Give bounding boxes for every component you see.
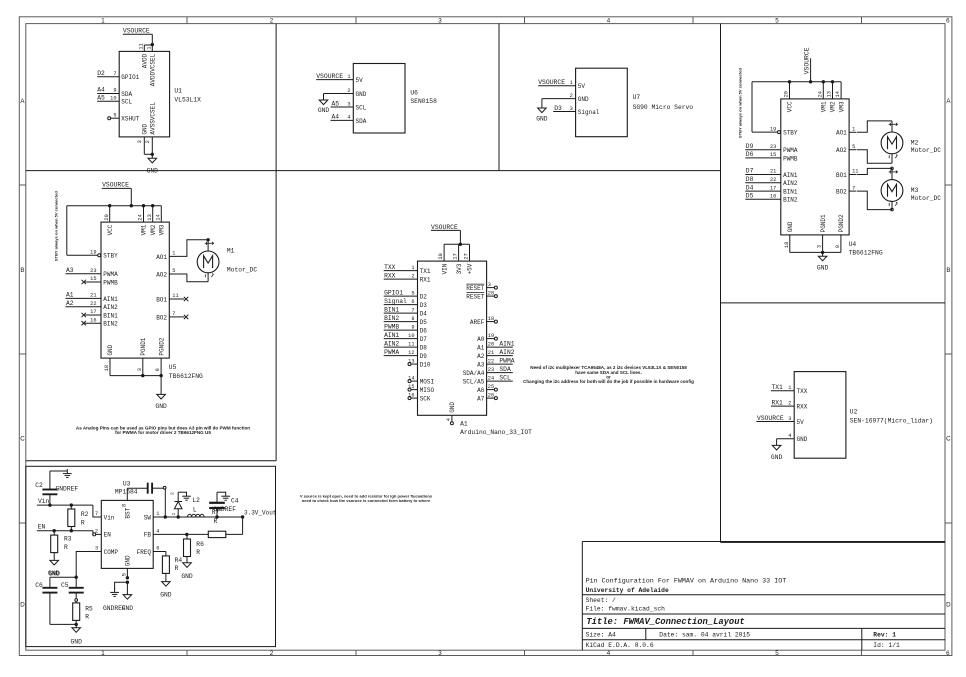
svg-text:D5: D5	[746, 193, 754, 200]
A1 pin 25 A6 unconnected	[477, 384, 497, 394]
svg-text:PWMB: PWMB	[783, 155, 798, 162]
A1 top pins VIN 3V3 +5V	[438, 244, 474, 274]
svg-text:Changing the i2c address for b: Changing the i2c address for both will d…	[523, 379, 694, 384]
svg-text:STBY always on when 5V connect: STBY always on when 5V connected	[738, 67, 743, 138]
svg-text:9: 9	[113, 87, 116, 93]
svg-text:1: 1	[101, 17, 105, 24]
svg-text:3: 3	[137, 368, 143, 371]
svg-text:4: 4	[607, 17, 611, 24]
capacitor C5	[61, 577, 84, 598]
svg-text:M2: M2	[911, 139, 919, 146]
svg-text:2: 2	[145, 140, 151, 143]
U7 pin 1 5V, net VSOURCE	[538, 79, 585, 90]
svg-text:GND: GND	[71, 639, 83, 646]
U3 pin 1 SW	[144, 511, 166, 521]
svg-text:26: 26	[488, 392, 494, 398]
U1 pin 7 GPIO1, net D2	[97, 70, 140, 81]
svg-text:20: 20	[104, 214, 110, 220]
svg-text:11: 11	[172, 293, 178, 299]
wire Vin to U3 pin 7	[92, 505, 94, 517]
resistor R3	[51, 531, 72, 561]
wire U4 ground bus	[790, 251, 841, 253]
svg-text:GND: GND	[48, 570, 60, 577]
svg-text:VSOURCE: VSOURCE	[102, 182, 129, 189]
svg-text:Motor_DC: Motor_DC	[911, 147, 941, 154]
svg-text:TXX: TXX	[384, 264, 396, 271]
svg-text:AVSSVCSEL: AVSSVCSEL	[150, 102, 157, 135]
wire U3 GND down	[126, 582, 128, 594]
svg-text:AIN2: AIN2	[384, 340, 399, 347]
svg-text:RX1: RX1	[420, 277, 431, 284]
U3 pin 7 Vin	[93, 511, 115, 521]
svg-text:R3: R3	[64, 536, 72, 543]
capacitor C4	[209, 492, 239, 517]
svg-text:30: 30	[438, 253, 444, 259]
pin end circle M3 bottom	[891, 208, 894, 211]
svg-text:4: 4	[788, 433, 791, 439]
A1 pin 14 MOSI unconnected	[408, 375, 434, 385]
wire C2 to GNDREF	[50, 470, 67, 472]
svg-text:AVDDVCSEL: AVDDVCSEL	[150, 53, 157, 86]
svg-text:C5: C5	[61, 582, 69, 589]
ground GND (U2)	[771, 445, 783, 460]
svg-text:Pin Configuration For FWMAV on: Pin Configuration For FWMAV on Arduino N…	[586, 577, 787, 585]
svg-text:RX1: RX1	[772, 399, 784, 406]
U5 top pins VCC VM1 VM2 VM3	[104, 206, 166, 236]
svg-text:C6: C6	[35, 582, 43, 589]
svg-text:4: 4	[446, 418, 452, 421]
svg-text:9: 9	[155, 368, 161, 371]
wire A1 top power bus	[444, 243, 469, 245]
junctions on VSOURCE bus (U4)	[788, 80, 834, 83]
A1 pin 24 SCL/A5, net SCL	[463, 374, 513, 385]
IC U2 SEN-16977 body	[794, 372, 846, 459]
svg-text:A2: A2	[66, 300, 74, 307]
svg-text:3: 3	[347, 101, 350, 107]
IC U5 TB6612FNG body	[101, 222, 169, 358]
resistor R6	[184, 534, 205, 562]
svg-text:6: 6	[156, 546, 159, 552]
svg-text:22: 22	[770, 177, 776, 183]
svg-text:VSOURCE: VSOURCE	[123, 28, 150, 35]
junction M1 top	[206, 238, 209, 241]
svg-text:VSOURCE: VSOURCE	[431, 224, 458, 231]
svg-text:Sheet: /: Sheet: /	[586, 597, 616, 604]
svg-text:GND: GND	[356, 91, 367, 98]
svg-text:3: 3	[137, 140, 143, 143]
svg-text:U7: U7	[633, 94, 641, 101]
svg-text:AVDD: AVDD	[142, 53, 149, 68]
svg-text:BST: BST	[125, 507, 132, 518]
svg-text:PWMA: PWMA	[103, 271, 118, 278]
U3 pin 5 GND	[122, 555, 132, 578]
svg-text:7: 7	[172, 311, 175, 317]
svg-text:GND: GND	[160, 591, 172, 598]
svg-text:1: 1	[570, 80, 573, 86]
svg-text:AIN1: AIN1	[499, 340, 514, 347]
junction Vout	[241, 515, 244, 518]
U3 pin 8 BST	[121, 488, 131, 518]
svg-text:D3: D3	[420, 302, 428, 309]
U3 pin 6 FREQ	[137, 546, 166, 556]
svg-text:GND: GND	[787, 221, 794, 232]
U3 pin 2 EN inverted	[93, 529, 112, 539]
U3 pin 4 FB	[144, 529, 187, 539]
A1 reference labels	[460, 420, 532, 436]
U6 pin 4 SDA, net A4	[331, 114, 367, 125]
svg-text:U1: U1	[174, 88, 182, 95]
svg-text:C: C	[946, 436, 951, 443]
wire Vout down to FB	[242, 517, 244, 534]
U2 reference labels	[850, 409, 933, 425]
svg-text:BIN1: BIN1	[783, 189, 798, 196]
svg-text:XSHUT: XSHUT	[121, 116, 139, 123]
svg-text:5V: 5V	[578, 83, 586, 90]
svg-text:D5: D5	[420, 319, 428, 326]
ground GND (R6)	[181, 563, 193, 580]
svg-text:22: 22	[90, 301, 96, 307]
U4 pin 1 AO1	[836, 127, 856, 137]
U5 pin 21 AIN1, net A1	[66, 292, 119, 303]
svg-text:17: 17	[770, 185, 776, 191]
svg-text:GPIO1: GPIO1	[384, 289, 403, 296]
svg-text:3V3: 3V3	[456, 263, 463, 274]
svg-text:STBY: STBY	[783, 130, 798, 137]
svg-text:U6: U6	[410, 89, 418, 96]
wire to M2 bottom	[857, 150, 892, 164]
svg-text:15: 15	[408, 384, 414, 390]
svg-text:23: 23	[90, 268, 96, 274]
IC U3 MP1584 body	[101, 500, 153, 568]
svg-text:Signal: Signal	[578, 109, 600, 116]
svg-text:SCL: SCL	[356, 104, 367, 111]
svg-text:15: 15	[770, 152, 776, 158]
svg-text:R: R	[64, 544, 68, 551]
svg-text:R2: R2	[81, 511, 89, 518]
svg-text:M3: M3	[911, 187, 919, 194]
svg-text:Vin: Vin	[104, 514, 115, 521]
U3 pin 3 COMP	[93, 546, 118, 556]
U4 pin 15 PWMB, net D6	[745, 151, 798, 162]
A1 pin 23 SDA/A4, net SDA	[463, 366, 513, 377]
svg-text:SDA: SDA	[499, 366, 511, 373]
svg-text:GND: GND	[449, 402, 456, 413]
U1 pin 9 SDA, net A4	[97, 86, 132, 98]
ground GND (R5)	[71, 624, 83, 645]
svg-text:A3: A3	[477, 362, 485, 369]
junction BST-SW	[164, 515, 167, 518]
svg-text:BIN2: BIN2	[103, 321, 118, 328]
U6 pin 1 5V, net VSOURCE	[316, 73, 363, 84]
svg-text:EN: EN	[104, 532, 112, 539]
wire BST cap to SW	[164, 489, 166, 517]
svg-text:22: 22	[488, 358, 494, 364]
svg-text:KiCad E.D.A. 8.0.6: KiCad E.D.A. 8.0.6	[586, 642, 654, 649]
svg-text:TXX: TXX	[797, 388, 808, 395]
svg-text:BO2: BO2	[836, 189, 847, 196]
svg-text:7: 7	[95, 511, 98, 517]
pin end circle BST	[163, 486, 166, 489]
ground GND (U7)	[536, 108, 548, 123]
U4 pin 5 AO2	[836, 144, 856, 154]
A1 pin 2 RX1, net RXX	[384, 272, 431, 283]
svg-text:R4: R4	[175, 557, 183, 564]
svg-text:8: 8	[121, 504, 127, 507]
svg-text:University of Adelaide: University of Adelaide	[586, 587, 669, 594]
A1 pin 18 AREF unconnected	[470, 316, 498, 326]
A1 pin 7 D4, net BIN1	[384, 306, 428, 317]
U1 pin 11 AVDD	[138, 43, 148, 68]
svg-text:A4: A4	[97, 86, 105, 93]
U1 pin 3 GND	[137, 123, 149, 154]
U1 pin 10 SCL, net A5	[97, 95, 132, 106]
svg-text:11: 11	[138, 43, 144, 49]
svg-text:5V: 5V	[797, 419, 805, 426]
U4 bottom pins GND PGND1 PGND2	[784, 214, 845, 252]
svg-text:AREF: AREF	[470, 319, 485, 326]
svg-text:D9: D9	[746, 143, 754, 150]
svg-text:2: 2	[170, 492, 176, 495]
ground GND (U1)	[147, 154, 159, 174]
capacitor C1 BST	[127, 483, 164, 494]
svg-text:A1: A1	[460, 420, 468, 427]
svg-text:PGND1: PGND1	[820, 214, 827, 232]
svg-text:BIN1: BIN1	[384, 306, 399, 313]
svg-text:GND: GND	[125, 555, 132, 566]
A1 pin 1 TX1, net TXX	[384, 264, 431, 275]
svg-text:Rev: 1: Rev: 1	[873, 631, 896, 638]
A1 pin 16 SCK unconnected	[408, 392, 431, 402]
ground GND (R3)	[49, 560, 61, 577]
title block	[582, 542, 945, 651]
svg-text:GND: GND	[771, 454, 783, 461]
wire to M2 top	[857, 121, 892, 132]
svg-text:VM1: VM1	[821, 101, 828, 112]
U1 pin 2 AVSSVCSEL	[145, 102, 156, 155]
U3 reference labels	[115, 480, 138, 495]
svg-text:1: 1	[852, 127, 855, 133]
A1 pin 9 D6, net PWMB	[384, 323, 428, 334]
svg-text:PGND2: PGND2	[838, 214, 845, 232]
svg-text:VIN: VIN	[441, 263, 448, 274]
U5 pin 16 BIN2 no-connect	[82, 317, 119, 327]
svg-text:AO2: AO2	[836, 147, 847, 154]
power flag VSOURCE (U1)	[123, 28, 152, 35]
svg-text:D7: D7	[746, 168, 754, 175]
svg-text:Motor_DC: Motor_DC	[911, 195, 941, 202]
A1 pin 11 D8, net AIN2	[384, 340, 428, 351]
net label GND wire (C5/C6)	[48, 570, 76, 577]
svg-text:AO2: AO2	[156, 271, 167, 278]
svg-text:MOSI: MOSI	[420, 379, 434, 386]
svg-text:5: 5	[775, 650, 779, 657]
svg-text:need to check how the vsoruce: need to check how the vsoruce is connect…	[302, 498, 431, 503]
svg-text:28: 28	[488, 290, 494, 296]
wire C6 to R5 bottom	[50, 623, 76, 625]
svg-text:GND: GND	[817, 265, 829, 272]
svg-text:3: 3	[438, 17, 442, 24]
svg-text:5: 5	[122, 573, 128, 576]
ground GND (U4)	[817, 252, 829, 271]
IC U4 TB6612FNG body	[781, 99, 849, 235]
svg-text:U4: U4	[849, 241, 857, 248]
svg-text:5: 5	[113, 112, 116, 118]
U5 pin 11 BO1	[156, 293, 188, 303]
svg-text:VL53L1X: VL53L1X	[174, 97, 201, 104]
svg-text:U3: U3	[123, 480, 131, 487]
svg-text:24: 24	[488, 375, 494, 381]
capacitor C2	[35, 471, 57, 505]
svg-text:GND: GND	[122, 605, 134, 612]
note text V source	[300, 494, 433, 503]
svg-text:13: 13	[408, 358, 414, 364]
ground GND (U5)	[155, 376, 167, 410]
svg-text:7: 7	[852, 185, 855, 191]
U4 top pins VCC VM1 VM2 VM3	[784, 82, 846, 112]
svg-text:TB6612FNG: TB6612FNG	[169, 373, 203, 380]
svg-text:11: 11	[852, 169, 858, 175]
svg-text:18: 18	[104, 365, 110, 371]
svg-text:GND: GND	[155, 403, 167, 410]
svg-text:R: R	[196, 549, 200, 556]
svg-text:23: 23	[770, 144, 776, 150]
svg-text:VSOURCE: VSOURCE	[538, 79, 565, 86]
svg-text:16: 16	[770, 194, 776, 200]
svg-text:4: 4	[607, 650, 611, 657]
svg-text:VSOURCE: VSOURCE	[757, 415, 784, 422]
svg-text:PWMA: PWMA	[384, 349, 399, 356]
svg-text:PGND1: PGND1	[140, 337, 147, 355]
svg-text:Vin: Vin	[38, 498, 50, 505]
junction D1-SW	[177, 515, 180, 518]
svg-text:L: L	[193, 507, 197, 514]
svg-text:GND: GND	[181, 573, 193, 580]
svg-text:19: 19	[90, 250, 96, 256]
svg-text:for PWMA for motor driver 2 TB: for PWMA for motor driver 2 TB6612FNG U5	[115, 430, 211, 435]
svg-text:2: 2	[270, 17, 274, 24]
wire VSOURCE to U1 pins	[144, 34, 152, 51]
A1 pin 15 MISO unconnected	[408, 384, 435, 394]
U5 pin 15 PWMB no-connect	[82, 276, 119, 286]
svg-text:18: 18	[784, 242, 790, 248]
junctions on VSOURCE bus (U5)	[108, 204, 154, 207]
U5 reference labels	[169, 364, 203, 380]
junctions U4 ground	[821, 251, 824, 254]
svg-text:21: 21	[90, 293, 96, 299]
A1 pin 5 D2, net GPIO1	[384, 289, 428, 300]
svg-text:5: 5	[852, 144, 855, 150]
svg-text:AIN1: AIN1	[384, 332, 399, 339]
svg-text:23: 23	[488, 367, 494, 373]
wire to M3 bottom	[857, 191, 892, 210]
svg-text:SCK: SCK	[420, 396, 431, 403]
svg-text:2: 2	[570, 93, 573, 99]
svg-text:3: 3	[570, 106, 573, 112]
svg-text:SG90 Micro Servo: SG90 Micro Servo	[633, 104, 694, 111]
svg-text:BIN1: BIN1	[103, 312, 118, 319]
svg-text:8: 8	[411, 316, 414, 322]
wire to M1 bottom	[177, 274, 209, 282]
svg-text:PWMA: PWMA	[783, 147, 798, 154]
svg-text:2: 2	[411, 273, 414, 279]
svg-text:RESET: RESET	[466, 285, 484, 292]
svg-text:TB6612FNG: TB6612FNG	[849, 250, 883, 257]
svg-text:13: 13	[147, 214, 153, 220]
svg-text:D: D	[946, 602, 951, 609]
svg-text:STBY: STBY	[103, 253, 118, 260]
junction COMP-C5	[75, 576, 78, 579]
junction U3 GND pin	[126, 576, 129, 584]
svg-text:VM2: VM2	[830, 101, 837, 112]
A1 pin 19 A0 unconnected	[477, 333, 497, 343]
svg-text:GND: GND	[142, 123, 149, 134]
svg-text:AIN2: AIN2	[783, 180, 798, 187]
svg-text:AO1: AO1	[156, 254, 167, 261]
power GNDREF (U3)	[103, 588, 126, 612]
svg-text:3: 3	[95, 546, 98, 552]
svg-text:SEN-16977(Micro_lidar): SEN-16977(Micro_lidar)	[850, 417, 933, 424]
svg-text:7: 7	[411, 307, 414, 313]
junction R6-FB	[185, 533, 188, 536]
net label EN wire	[37, 523, 93, 530]
U4 pin 23 PWMA, net D9	[745, 143, 798, 154]
title block texts	[586, 577, 900, 649]
svg-text:MISO: MISO	[420, 387, 435, 394]
svg-text:2: 2	[95, 529, 98, 535]
pin end circle M3 top	[891, 167, 894, 170]
svg-text:27: 27	[464, 253, 470, 259]
svg-text:STBY always on when 5V connect: STBY always on when 5V connected	[54, 191, 59, 262]
svg-text:U5: U5	[169, 364, 177, 371]
svg-text:AIN1: AIN1	[783, 172, 798, 179]
svg-text:A7: A7	[477, 396, 485, 403]
motor M3 Motor_DC	[881, 168, 903, 209]
svg-text:5: 5	[775, 17, 779, 24]
svg-text:RESET: RESET	[466, 294, 484, 301]
svg-text:24: 24	[138, 214, 144, 220]
svg-text:18: 18	[488, 316, 494, 322]
svg-text:PWMB: PWMB	[384, 323, 399, 330]
svg-text:GND: GND	[318, 107, 330, 114]
svg-text:5: 5	[172, 268, 175, 274]
U5 pin 1 AO1	[156, 251, 176, 261]
wire U3 GND to GNDREF	[115, 582, 128, 590]
svg-text:D2: D2	[420, 294, 428, 301]
svg-text:D4: D4	[420, 311, 428, 318]
U4 pin 7 BO2	[836, 185, 856, 195]
svg-text:5: 5	[411, 290, 414, 296]
svg-text:R6: R6	[196, 541, 204, 548]
svg-text:A0: A0	[477, 336, 485, 343]
svg-text:1: 1	[101, 650, 105, 657]
A1 pin 12 D9, net PWMA	[384, 349, 428, 360]
U6 pin 2 GND wire	[324, 88, 367, 100]
svg-text:7: 7	[113, 71, 116, 77]
svg-text:3: 3	[438, 650, 442, 657]
svg-text:D3: D3	[554, 105, 562, 112]
U6 pin 3 SCL, net A5	[331, 100, 367, 111]
A1 pin 4 GND unconnected	[446, 402, 456, 425]
svg-text:B: B	[946, 267, 950, 274]
svg-text:A1: A1	[66, 292, 74, 299]
svg-text:16: 16	[408, 392, 414, 398]
U2 pin 3 5V, net VSOURCE	[756, 415, 804, 426]
svg-text:A1: A1	[477, 345, 485, 352]
M2 labels	[911, 139, 941, 154]
svg-text:GND: GND	[578, 96, 589, 103]
svg-text:FREQ: FREQ	[137, 549, 152, 556]
svg-text:BIN2: BIN2	[783, 197, 798, 204]
